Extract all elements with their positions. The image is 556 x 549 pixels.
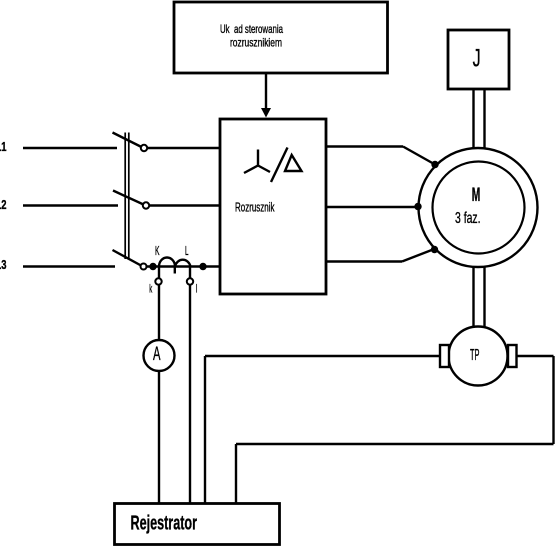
svg-text:k: k [149, 281, 153, 295]
svg-text:TP: TP [470, 347, 480, 364]
svg-text:Rejestrator: Rejestrator [131, 512, 198, 534]
svg-text:l: l [196, 281, 198, 295]
svg-text:J: J [473, 45, 481, 73]
svg-text:L: L [185, 243, 189, 258]
svg-text:3 faz.: 3 faz. [455, 210, 481, 227]
svg-text:L2: L2 [0, 198, 7, 212]
svg-text:Uk ad sterowania: Uk ad sterowania [220, 22, 283, 36]
svg-text:M: M [472, 185, 481, 206]
svg-text:Rozrusznik: Rozrusznik [235, 201, 275, 215]
svg-text:L3: L3 [0, 258, 7, 272]
svg-text:A: A [153, 344, 161, 365]
svg-text:rozrusznikiem: rozrusznikiem [230, 36, 282, 50]
svg-text:L1: L1 [0, 140, 7, 154]
svg-text:K: K [155, 243, 160, 258]
